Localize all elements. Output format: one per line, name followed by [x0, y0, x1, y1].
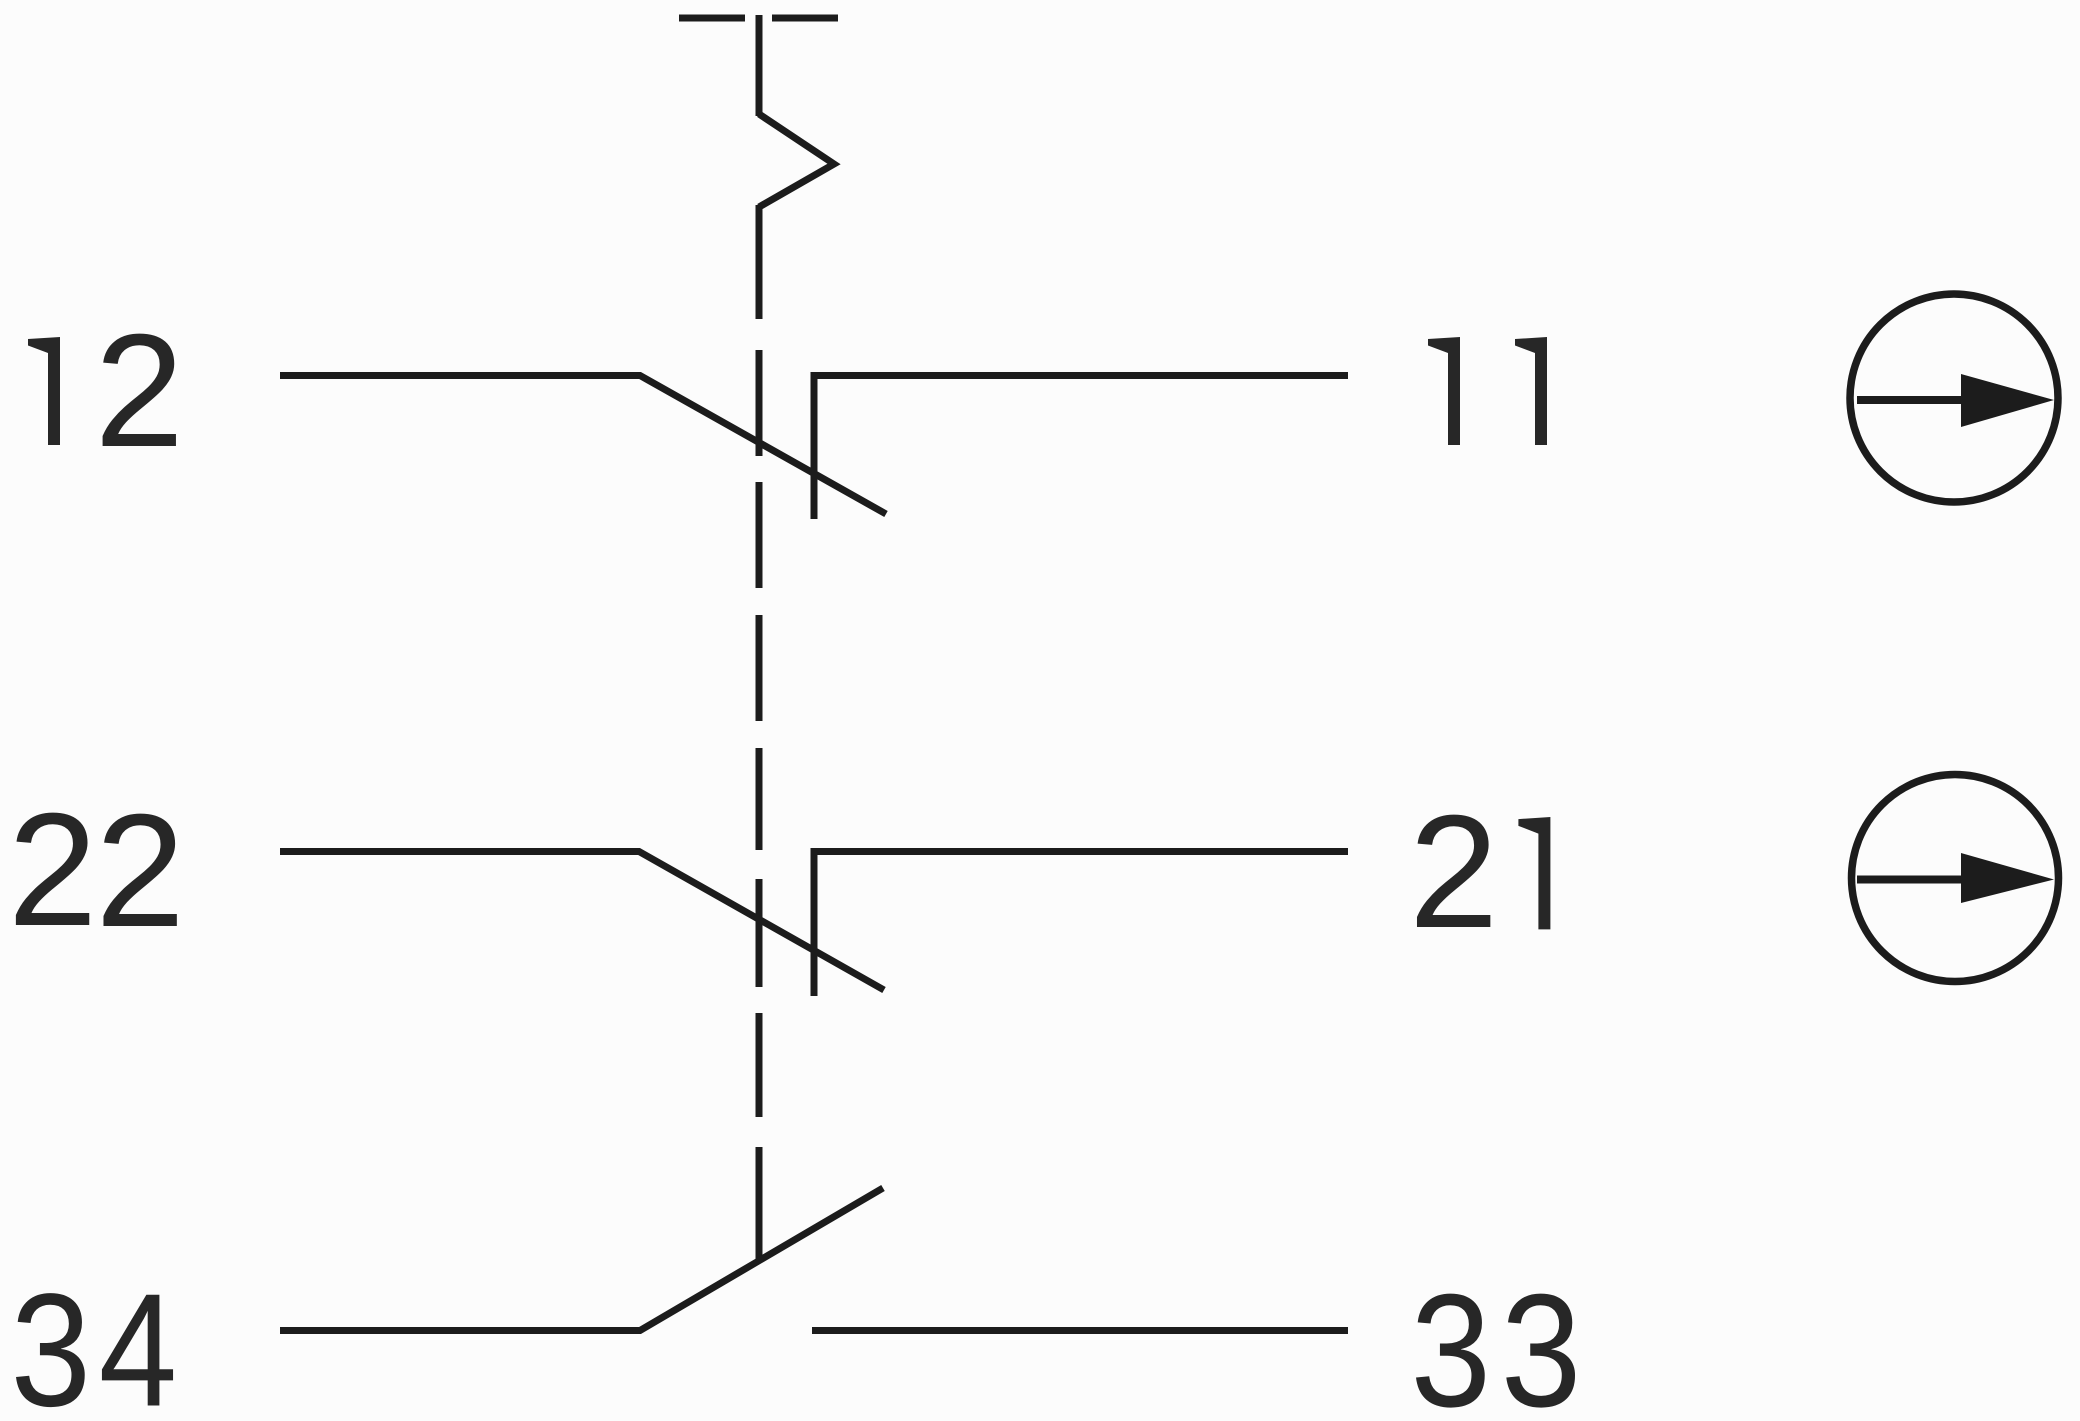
svg-text:2: 2 [8, 780, 98, 960]
svg-text:2: 2 [95, 781, 185, 961]
svg-text:4: 4 [99, 1261, 177, 1421]
svg-text:2: 2 [95, 301, 185, 481]
svg-text:3: 3 [11, 1260, 92, 1421]
svg-text:3: 3 [1411, 1261, 1492, 1421]
svg-text:3: 3 [1501, 1261, 1582, 1421]
svg-text:2: 2 [1409, 782, 1499, 962]
